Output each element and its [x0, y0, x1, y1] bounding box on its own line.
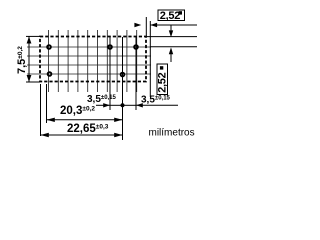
dimension 2,52 right vertical: boxed label rotated [157, 64, 169, 95]
hole pin 3 top-right [134, 45, 138, 49]
dimension 2,52 right vertical: extension lines [146, 37, 197, 47]
dimension 22,65: arrowheads [41, 133, 123, 137]
extension line left edge down [40, 84, 42, 136]
dimension 2,52 top: lines and arrows [150, 24, 197, 26]
dimension 7,5 left: label text rotated [16, 46, 28, 74]
dimension 3,5 right: line arrow and text [123, 104, 179, 106]
grid vertical lines [49, 30, 137, 92]
hole pin 2 top-middle [108, 45, 112, 49]
dimension 22,65: label [67, 123, 109, 135]
extension line from pin 3 down [135, 37, 137, 110]
svg-text:2,52: 2,52 [160, 10, 180, 22]
svg-text:3,5±0,15: 3,5±0,15 [141, 95, 171, 106]
units label milimetros [149, 128, 195, 139]
extension line from pin 4 down [46, 84, 48, 123]
relay outline dashed rectangle [40, 37, 146, 82]
hole pin 1 top-left [47, 45, 51, 49]
dimension 3,5 left: line arrow and text [96, 104, 123, 106]
dimension 20,3: label [60, 105, 95, 117]
svg-text:2,52: 2,52 [157, 72, 169, 92]
svg-text:22,65±0,3: 22,65±0,3 [67, 123, 109, 135]
junction dot shared boundary [121, 103, 125, 107]
dimension 2,52 right vertical: arrows with stubs [170, 25, 172, 62]
dimension 2,52 top: boxed label [158, 10, 185, 22]
extension line x=150 long [149, 21, 151, 97]
svg-text:20,3±0,2: 20,3±0,2 [60, 105, 95, 117]
dimension 20,3: arrowheads [47, 118, 123, 122]
hole pin 4 bottom-left [48, 72, 52, 76]
extension line right edge up [145, 17, 147, 36]
svg-text:3,5±0,15: 3,5±0,15 [87, 94, 117, 105]
dimension 7,5 left: arrowheads [27, 37, 32, 83]
dimension 20,3: line [47, 119, 123, 121]
grid horizontal lines [27, 47, 151, 74]
svg-text:milímetros: milímetros [149, 128, 195, 139]
extension line from pin 5 down long [122, 37, 124, 140]
dimension 22,65: line [41, 134, 123, 136]
dimension 7,5 left: dimension line [26, 36, 40, 82]
hole pin 5 bottom-middle [121, 73, 125, 77]
svg-text:7,5±0,2: 7,5±0,2 [16, 46, 28, 74]
extension line from pin 2 down [109, 37, 111, 110]
